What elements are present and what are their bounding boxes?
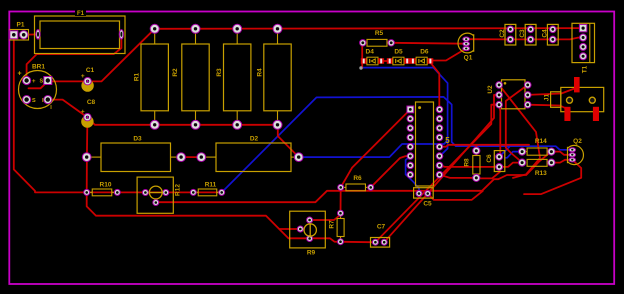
svg-text:5: 5 <box>445 136 450 145</box>
svg-text:R3: R3 <box>216 68 223 77</box>
resistor R5 <box>360 30 395 46</box>
svg-text:C6: C6 <box>486 154 493 163</box>
wire red D6 right down to U1 pin1 <box>430 62 440 110</box>
wire red C6 bottom to R13 left <box>499 163 522 167</box>
wire red C5 right to C7 right <box>384 194 428 243</box>
fuse F1 <box>35 10 126 54</box>
wire red bottom path R10 to R9 R7 C7 <box>87 192 376 242</box>
connector T1 <box>572 23 595 73</box>
capacitor C6 <box>486 151 505 172</box>
wire red BR1 square pad jog <box>29 81 48 88</box>
wire red U2 right-top cross to R13 left <box>506 85 528 163</box>
svg-text:+: + <box>17 70 21 77</box>
transistor Q2 <box>568 138 584 165</box>
wire red R5 right to Q1 middle <box>391 42 466 45</box>
svg-text:C1: C1 <box>86 67 95 74</box>
svg-text:R7: R7 <box>329 220 336 229</box>
resistor R6 <box>338 175 374 191</box>
svg-text:R10: R10 <box>100 181 112 188</box>
wire red rail Q1 top to T1 pin2 <box>466 38 583 40</box>
IC U1 <box>407 102 450 186</box>
wire blue net B3 D2 to U1 crossing <box>299 140 448 157</box>
capacitor C3 <box>519 24 536 45</box>
resistor R3 <box>216 24 251 129</box>
svg-text:R9: R9 <box>307 250 316 257</box>
capacitor C1 <box>81 67 95 92</box>
svg-text:+: + <box>81 73 85 80</box>
wire red rail R10 R12 R11 <box>87 191 222 193</box>
diode D6 <box>410 49 433 65</box>
wire red R6 left down to R7 top <box>340 187 342 213</box>
resistor R2 <box>172 24 209 129</box>
wire red R5 left to D4 and via <box>361 43 363 68</box>
bridge rectifier BR1 <box>17 64 56 111</box>
svg-text:R5: R5 <box>375 30 384 37</box>
svg-text:Q2: Q2 <box>573 138 582 145</box>
wire red C8 to R1-R4 bottoms to D2 right <box>87 117 298 157</box>
svg-text:S: S <box>32 98 36 104</box>
svg-text:S: S <box>39 79 43 85</box>
capacitor C8 <box>81 99 96 128</box>
resistor R7 <box>329 210 345 245</box>
wire red C8 down through D3 left to R10 left <box>86 117 89 192</box>
wire red F1 right pad to BR1 plus <box>27 34 122 80</box>
resistor R4 <box>257 24 291 129</box>
wire red D3 right to D2 left <box>181 156 201 158</box>
svg-text:D3: D3 <box>133 136 142 143</box>
wire red Q2 bottom down diag <box>524 160 581 194</box>
resistor R1 <box>134 24 169 129</box>
wire red R9 top to R7 <box>310 215 341 221</box>
resistor R8 <box>464 147 480 181</box>
transistor Q1 <box>458 33 474 61</box>
diode D3 <box>82 136 185 172</box>
svg-text:+: + <box>32 79 36 85</box>
wire red U1 to rail y144 <box>440 145 530 147</box>
svg-text:C2: C2 <box>499 29 506 38</box>
wire red P1 square pad down to R10 rail <box>14 35 87 193</box>
capacitor C7 <box>371 224 390 248</box>
wire red C5 right to rail junction <box>428 191 483 200</box>
svg-text:Q1: Q1 <box>464 55 473 62</box>
diode D5 <box>387 49 410 65</box>
svg-text:R1: R1 <box>134 72 141 81</box>
svg-text:C4: C4 <box>541 29 548 38</box>
wire red U1 to C6 bottom <box>440 165 500 167</box>
svg-text:R12: R12 <box>175 184 182 196</box>
wire red U2 bottom-left to C6 top <box>499 105 500 157</box>
svg-text:D6: D6 <box>420 49 429 56</box>
wire red U2 right to J1 b <box>528 105 566 109</box>
wire red U1 to R8 bottom <box>440 175 477 178</box>
resistor R10 <box>84 181 121 195</box>
wire red U2 top-left cross to R13 area <box>499 85 540 178</box>
wire red R6 right diag to U1 <box>371 156 411 187</box>
wire blue net B1 R11 to rail <box>222 97 573 192</box>
trimmer R12 <box>137 177 182 213</box>
svg-text:BR1: BR1 <box>32 64 45 71</box>
connector J1 <box>544 77 604 121</box>
svg-text:C7: C7 <box>377 224 386 231</box>
svg-text:C3: C3 <box>519 29 526 38</box>
wire red D5 to D6 <box>407 60 413 62</box>
svg-text:R13: R13 <box>535 170 547 177</box>
svg-text:R2: R2 <box>172 68 179 77</box>
wire red rail top R1-R4 C2-C4 T1 pin1 <box>155 27 583 30</box>
connector P1 <box>10 22 29 41</box>
wire red U2 bottom diag to C7 left <box>375 105 499 243</box>
svg-text:C5: C5 <box>423 201 432 208</box>
wire red U1 pin1 diag to R6 left <box>341 109 411 187</box>
resistor R11 <box>190 181 224 195</box>
capacitor C2 <box>499 24 516 45</box>
via near D4 <box>359 66 362 69</box>
svg-text:R11: R11 <box>205 181 217 188</box>
wire red BR1 I to C8 <box>48 100 88 118</box>
wire red R14 right to Q2 mid <box>551 152 572 155</box>
wire red D4 to D5 <box>381 60 390 62</box>
svg-text:R6: R6 <box>353 175 362 182</box>
trimmer R9 <box>290 211 326 256</box>
resistor R14 <box>519 138 556 155</box>
svg-text:J1: J1 <box>544 94 551 102</box>
wire red R8 top to rail <box>475 145 477 151</box>
diode D2 <box>197 136 303 172</box>
resistor R13 <box>519 159 556 177</box>
svg-text:R8: R8 <box>464 158 471 167</box>
wire red U2 right to J1 a <box>528 89 575 95</box>
wire blue net B5 C6 top branch <box>499 146 510 157</box>
svg-text:R4: R4 <box>257 68 264 77</box>
wire red C6 bottom to R8 bottom <box>476 167 500 179</box>
wire blue net B2 via under diodes to U1 <box>362 68 448 157</box>
wire red Q1 bottom to D6 <box>430 48 467 60</box>
wire red P1 to F1 left pad <box>24 33 38 35</box>
IC U2 <box>487 80 531 109</box>
svg-text:R14: R14 <box>535 138 547 145</box>
wire blue net B4 to R14 left pad <box>505 152 522 158</box>
wire red BR1 S to C1 to R1 top <box>46 29 155 82</box>
diode D4 <box>361 49 384 65</box>
capacitor C4 <box>541 24 558 45</box>
svg-text:+: + <box>81 109 85 116</box>
wire blue net B6 U1 to C5 left pad <box>406 156 419 193</box>
svg-text:T1: T1 <box>582 65 589 73</box>
wire red rail R12 bottom to R14 right <box>156 152 552 203</box>
svg-text:U2: U2 <box>487 85 494 94</box>
wire red R13 right to Q2 bottom <box>551 160 572 163</box>
wire red R9 left pad stub <box>279 228 300 230</box>
svg-text:F1: F1 <box>77 11 85 17</box>
wire red U2 mid diag to C5 right <box>428 95 499 194</box>
svg-text:D4: D4 <box>366 49 375 56</box>
svg-text:D5: D5 <box>394 49 403 56</box>
svg-text:C8: C8 <box>87 99 96 106</box>
capacitor C5 <box>414 188 434 208</box>
svg-text:D2: D2 <box>250 136 259 143</box>
svg-text:P1: P1 <box>17 22 25 29</box>
